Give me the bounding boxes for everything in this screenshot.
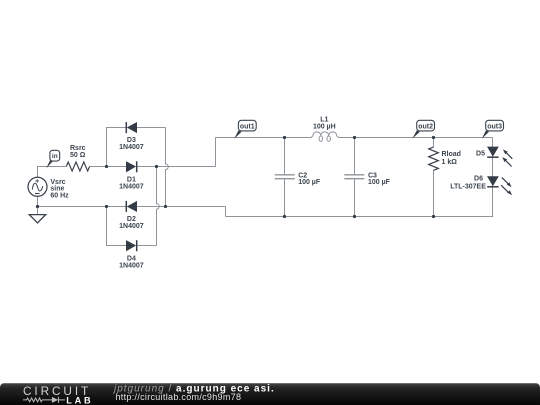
wire D1 cathode to corner: [137, 166, 215, 168]
svg-text:D3: D3: [127, 137, 136, 144]
svg-text:http://circuitlab.com/c9h9m78: http://circuitlab.com/c9h9m78: [116, 392, 242, 402]
junction dot line B bottom rail: [164, 205, 167, 208]
wire line B with hop over top rail: [166, 128, 169, 207]
diode D4: [126, 240, 136, 251]
label Rload: [442, 151, 461, 166]
LED D6: [487, 177, 512, 196]
resistor Rsrc zigzag: [66, 162, 89, 171]
svg-text:D2: D2: [127, 216, 136, 223]
node flag in: [46, 150, 60, 168]
ground: [29, 215, 45, 223]
svg-text:LAB: LAB: [66, 395, 93, 405]
svg-text:1N4007: 1N4007: [119, 144, 144, 151]
junction dot C2 top: [283, 136, 286, 139]
wire out1 rail left of L1: [215, 137, 311, 139]
wire Vsrc bottom to ground: [37, 196, 39, 214]
svg-text:L1: L1: [320, 117, 328, 124]
label L1: [313, 117, 336, 131]
svg-text:D1: D1: [127, 176, 136, 183]
junction dot D1 cathode node: [155, 165, 158, 168]
label D1: [119, 176, 144, 190]
footer logo squiggle: [23, 397, 65, 403]
svg-text:D6: D6: [474, 176, 483, 183]
voltage source Vsrc: [28, 177, 47, 196]
capacitor C2 top stem: [284, 138, 286, 175]
capacitor C2 bottom stem: [284, 179, 286, 217]
svg-text:1N4007: 1N4007: [119, 184, 144, 191]
node flag out1: [234, 120, 256, 139]
svg-text:in: in: [52, 153, 58, 160]
wire Rsrc to D1 anode: [90, 166, 127, 168]
wire out1 rail right of L1: [339, 137, 493, 139]
label C2: [298, 172, 321, 186]
capacitor C2 plates: [275, 175, 295, 179]
svg-text:50 Ω: 50 Ω: [70, 152, 86, 159]
inductor L1 coils: [311, 132, 339, 141]
node flag out3: [482, 120, 504, 138]
junction dot C3 bottom: [353, 215, 356, 218]
diode D1: [126, 161, 136, 172]
wire vertical up to out1 rail: [215, 138, 217, 167]
capacitor C3 top stem: [354, 138, 356, 175]
label Vsrc: [50, 179, 69, 199]
node flag out2: [412, 120, 434, 138]
label D2: [119, 216, 144, 230]
wire D4 cathode to line A: [137, 245, 156, 247]
wire bottom DC rail: [226, 216, 494, 218]
svg-text:out3: out3: [487, 123, 502, 130]
capacitor C3 plates: [344, 175, 364, 179]
svg-text:Rload: Rload: [442, 151, 461, 158]
resistor Rload zigzag: [429, 138, 439, 217]
wire left vertical to D3: [107, 128, 127, 167]
svg-text:1N4007: 1N4007: [119, 223, 144, 230]
label C3: [368, 172, 391, 186]
label Rsrc: [70, 145, 86, 159]
junction dot C2 bottom: [283, 215, 286, 218]
junction dot top rail to D3: [105, 165, 108, 168]
label D3: [119, 137, 144, 151]
junction dot C3 top: [353, 136, 356, 139]
svg-text:100 µH: 100 µH: [313, 124, 336, 131]
footer bar: [0, 383, 540, 405]
svg-text:100 µF: 100 µF: [298, 179, 321, 186]
wire D3 anode to line B: [137, 127, 166, 129]
diode D3: [126, 122, 136, 133]
svg-text:1N4007: 1N4007: [119, 263, 144, 270]
svg-text:out1: out1: [240, 123, 255, 130]
svg-text:D5: D5: [476, 150, 485, 157]
wire line A with hop over bottom rail: [157, 167, 160, 246]
diode D2: [126, 201, 136, 212]
footer logo diode: [52, 397, 58, 403]
junction dot Rload top: [432, 136, 435, 139]
junction dot Rload bottom: [432, 215, 435, 218]
wire bridge bottom rail left: [38, 206, 127, 208]
wire top rail from Vsrc to Rsrc: [38, 167, 67, 178]
junction dot bottom rail to D4: [105, 205, 108, 208]
wire left vertical to D4: [107, 207, 127, 246]
junction dot source-ground: [36, 205, 39, 208]
wire right vertical through D5 D6: [492, 138, 494, 217]
svg-text:D4: D4: [127, 256, 136, 263]
svg-text:Rsrc: Rsrc: [70, 145, 86, 152]
svg-text:LTL-307EE: LTL-307EE: [450, 183, 486, 190]
LED D5: [487, 147, 512, 167]
svg-text:out2: out2: [418, 123, 433, 130]
svg-text:100 µF: 100 µF: [368, 179, 391, 186]
svg-text:1 kΩ: 1 kΩ: [442, 159, 458, 166]
svg-text:60 Hz: 60 Hz: [50, 192, 69, 199]
wire bridge bottom rail right: [137, 206, 225, 208]
capacitor C3 bottom stem: [354, 179, 356, 217]
wire step between rails: [225, 207, 227, 217]
label D4: [119, 256, 144, 270]
